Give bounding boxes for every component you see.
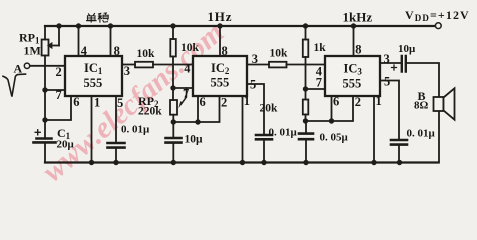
resistor 10k pull-up body bbox=[170, 39, 176, 57]
wire 20k node to IC3 pins 6,2 bbox=[306, 96, 354, 121]
svg-text:A: A bbox=[14, 62, 23, 76]
wire IC2 pin 7 bbox=[173, 87, 193, 89]
junction RP2 bottom bbox=[171, 119, 176, 124]
wire A to IC1 pin 2 bbox=[30, 65, 65, 67]
svg-text:5: 5 bbox=[117, 96, 123, 110]
svg-text:8: 8 bbox=[222, 44, 228, 58]
wire IC1 pin 5 bbox=[115, 96, 117, 143]
svg-text:0. 01μ: 0. 01μ bbox=[269, 127, 298, 139]
junction pin6 bbox=[195, 119, 200, 124]
trigger pulse waveform symbol bbox=[3, 74, 26, 97]
svg-text:5: 5 bbox=[250, 78, 256, 92]
wire IC2 pin 1 to ground bbox=[242, 96, 244, 163]
resistor 1k body bbox=[303, 40, 309, 58]
svg-text:10k: 10k bbox=[137, 48, 156, 60]
capacitor 10u timing bbox=[172, 122, 174, 138]
wire RP2 node to IC2 pins 6,2 bbox=[173, 96, 219, 122]
svg-text:10μ: 10μ bbox=[185, 134, 204, 146]
svg-text:10k: 10k bbox=[270, 48, 289, 60]
svg-text:10μ: 10μ bbox=[398, 43, 416, 55]
svg-text:555: 555 bbox=[343, 77, 362, 91]
wire IC1 pin 8 to rail bbox=[110, 26, 112, 56]
junction pin4-rail bbox=[76, 23, 81, 28]
wire IC1 pin 3 output bbox=[122, 64, 135, 66]
op-amp timer IC3 box bbox=[325, 56, 380, 96]
wire C1 to ground bbox=[44, 142, 46, 162]
wire 0.05u to ground bbox=[305, 139, 307, 162]
svg-text:0. 05μ: 0. 05μ bbox=[320, 132, 349, 144]
potentiometer RP1 wiper arrow bbox=[49, 44, 59, 48]
svg-text:555: 555 bbox=[211, 76, 230, 90]
junction pin8-rail IC3 bbox=[351, 23, 356, 28]
svg-text:VDD=+12V: VDD=+12V bbox=[405, 8, 470, 23]
wire 10k to RP2 node bbox=[172, 57, 174, 101]
potentiometer RP1 lead from rail bbox=[44, 26, 46, 40]
junction wiper-rail bbox=[56, 23, 61, 28]
svg-text:4: 4 bbox=[81, 44, 88, 58]
junction pin1-ground IC2 bbox=[240, 160, 245, 165]
svg-text:1: 1 bbox=[376, 94, 382, 108]
wire 10k to IC2 pin 4 bbox=[153, 64, 193, 66]
op-amp timer IC2 box bbox=[193, 56, 247, 96]
svg-text:7: 7 bbox=[316, 76, 322, 90]
wire 1k to pin7 node bbox=[305, 57, 307, 100]
svg-text:0. 01μ: 0. 01μ bbox=[407, 128, 436, 140]
junction pin6 node bbox=[42, 117, 47, 122]
capacitor C1 20u electrolytic bbox=[37, 137, 52, 140]
svg-text:3: 3 bbox=[384, 52, 390, 66]
svg-text:1Hz: 1Hz bbox=[208, 9, 233, 24]
capacitor 0.01u at IC3 pin5 bbox=[391, 140, 407, 145]
svg-text:3: 3 bbox=[124, 64, 130, 78]
resistor 10k stage2-3 bbox=[269, 62, 287, 68]
label 单稳 (monostable) bbox=[86, 13, 108, 23]
junction pin7 node IC3 bbox=[303, 86, 308, 91]
wire 10u to ground bbox=[172, 143, 174, 163]
junction 20k bottom bbox=[303, 118, 308, 123]
wire cap to ground bbox=[398, 145, 400, 163]
resistor 10k pull-up lead bbox=[172, 26, 174, 39]
wire RP2 bottom node bbox=[172, 115, 174, 122]
wire IC1 pin 1 to ground bbox=[91, 96, 93, 163]
junction pin7 node bbox=[42, 87, 47, 92]
junction pin8-rail bbox=[108, 23, 113, 28]
svg-text:10k: 10k bbox=[181, 42, 200, 54]
wire IC2 pin 6 bbox=[197, 96, 199, 122]
junction pin7 node IC2 bbox=[170, 85, 175, 90]
resistor 1k lead bbox=[305, 26, 307, 40]
wire IC3 pin 3 output bbox=[380, 62, 401, 64]
resistor 10k stage1-2 bbox=[135, 62, 153, 68]
junction cap-ground bbox=[397, 160, 402, 165]
svg-text:1: 1 bbox=[94, 96, 100, 110]
svg-text:7: 7 bbox=[56, 88, 62, 102]
wire 20k bottom node bbox=[305, 115, 307, 122]
svg-text:20μ: 20μ bbox=[57, 139, 75, 151]
resistor 20k body bbox=[303, 100, 309, 115]
capacitor 0.01u at IC2 pin5 bbox=[256, 135, 272, 139]
junction pin1-ground IC3 bbox=[371, 160, 376, 165]
wire cap to ground bbox=[263, 139, 265, 162]
svg-text:1kHz: 1kHz bbox=[343, 10, 373, 25]
wire IC3 pin 5 bbox=[380, 81, 399, 141]
capacitor 0.05u timing bbox=[305, 121, 307, 134]
wire VDD top rail bbox=[45, 25, 435, 27]
svg-text:5: 5 bbox=[384, 75, 390, 89]
svg-text:220k: 220k bbox=[138, 106, 162, 118]
svg-text:2: 2 bbox=[221, 96, 227, 110]
svg-text:8: 8 bbox=[114, 44, 120, 58]
svg-text:4: 4 bbox=[184, 62, 191, 76]
svg-text:8: 8 bbox=[355, 43, 361, 57]
input terminal A bbox=[24, 63, 29, 68]
op-amp timer IC1 box bbox=[65, 56, 122, 96]
wire IC3 pin 1 to ground bbox=[373, 96, 375, 163]
wire IC1 pin 7 bbox=[45, 89, 65, 91]
plus sign bbox=[392, 65, 397, 70]
svg-text:6: 6 bbox=[73, 95, 79, 109]
junction 10k-rail bbox=[170, 23, 175, 28]
wire RP1 wiper to rail bbox=[58, 26, 60, 46]
potentiometer RP2 body bbox=[170, 100, 177, 115]
svg-text:6: 6 bbox=[200, 95, 206, 109]
junction pin6 IC3 bbox=[329, 118, 334, 123]
wire 10k to IC3 pin 4 bbox=[287, 64, 326, 66]
wire IC2 pin 3 output bbox=[247, 64, 269, 66]
junction cap-ground bbox=[261, 160, 266, 165]
svg-text:2: 2 bbox=[355, 95, 361, 109]
ground rail bbox=[45, 161, 439, 163]
svg-text:1M: 1M bbox=[24, 44, 41, 58]
wire cap to ground bbox=[115, 148, 117, 163]
svg-text:3: 3 bbox=[252, 52, 258, 66]
wire RP1 bottom to timing node bbox=[44, 56, 46, 139]
wire IC3 pin 6 bbox=[331, 96, 333, 121]
svg-text:7: 7 bbox=[183, 87, 189, 101]
wire IC1 pin 4 to rail bbox=[78, 26, 80, 56]
svg-text:2: 2 bbox=[56, 65, 62, 79]
potentiometer RP2 wiper arrow bbox=[181, 88, 186, 104]
node VDD terminal bbox=[435, 23, 441, 29]
svg-text:1k: 1k bbox=[314, 42, 327, 54]
svg-text:8Ω: 8Ω bbox=[414, 100, 429, 112]
junction cap-ground bbox=[113, 160, 118, 165]
svg-text:0. 01μ: 0. 01μ bbox=[121, 124, 150, 136]
wire IC3 pin 8 to rail bbox=[353, 26, 355, 56]
capacitor 10u output electrolytic bbox=[402, 56, 406, 72]
capacitor 0.01u at IC1 pin5 bbox=[108, 143, 125, 148]
speaker B body bbox=[434, 97, 444, 111]
wire IC1 pin 6 bbox=[45, 96, 71, 120]
svg-text:1: 1 bbox=[244, 94, 250, 108]
wire IC2 pin 8 to rail bbox=[219, 26, 221, 56]
junction 1k-rail bbox=[303, 23, 308, 28]
wire IC3 pin 7 bbox=[306, 88, 326, 90]
wire IC2 pin 5 bbox=[247, 84, 264, 135]
wire 10u to speaker bbox=[406, 63, 439, 163]
junction 0.05u-ground bbox=[303, 160, 308, 165]
svg-text:6: 6 bbox=[333, 95, 339, 109]
C1 plus sign bbox=[35, 130, 40, 135]
junction 10u-ground bbox=[171, 160, 176, 165]
speaker B cone bbox=[444, 88, 455, 119]
svg-text:20k: 20k bbox=[260, 103, 279, 115]
potentiometer RP1 body bbox=[42, 40, 49, 56]
svg-text:555: 555 bbox=[84, 76, 103, 90]
junction pin8-rail IC2 bbox=[217, 23, 222, 28]
junction pin1-ground bbox=[89, 160, 94, 165]
